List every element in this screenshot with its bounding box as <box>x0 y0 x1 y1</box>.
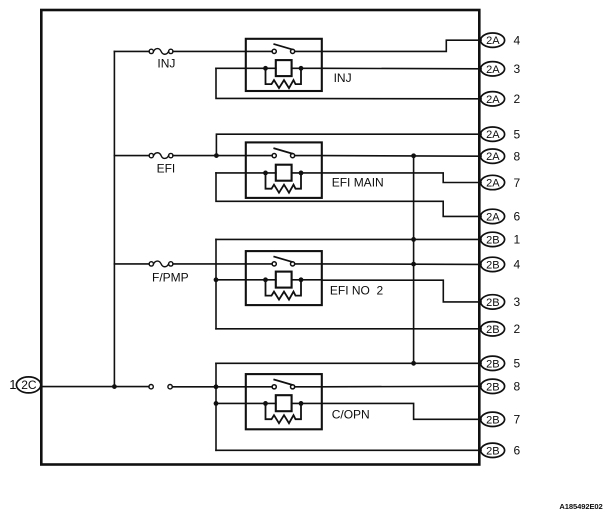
switch contact circles EFI MAIN <box>272 154 276 158</box>
svg-text:2B: 2B <box>486 358 499 370</box>
svg-text:EFI: EFI <box>157 161 176 175</box>
svg-text:C/OPN: C/OPN <box>332 407 370 421</box>
connector oval 2B pin 4 <box>481 257 521 272</box>
svg-text:2B: 2B <box>486 381 499 393</box>
switch arm INJ <box>274 44 292 49</box>
svg-text:INJ: INJ <box>157 57 175 71</box>
node bus bottom junction <box>112 384 117 389</box>
connector oval 2B pin 3 <box>481 295 521 310</box>
wire EFI fuse feed <box>114 155 149 157</box>
svg-text:4: 4 <box>514 258 521 272</box>
node coil feed C/OPN <box>214 401 219 406</box>
wire right vertical bus <box>413 156 415 363</box>
svg-text:2A: 2A <box>486 129 500 141</box>
coil wire INJ <box>216 67 322 69</box>
switch arm EFI MAIN <box>274 148 292 153</box>
svg-text:5: 5 <box>514 128 521 142</box>
switch contact wires C/OPN <box>246 386 322 388</box>
coil (relay winding) C/OPN <box>276 395 292 411</box>
svg-text:7: 7 <box>514 176 521 190</box>
coil (relay winding) EFI NO 2 <box>276 272 292 288</box>
coil wire EFI NO 2 <box>216 279 322 281</box>
fuse F/PMP <box>149 261 173 267</box>
svg-text:6: 6 <box>514 210 521 224</box>
switch contact wires EFI NO 2 <box>246 263 322 265</box>
svg-text:5: 5 <box>514 357 521 371</box>
connector oval 2A pin 7 <box>481 175 521 190</box>
svg-text:6: 6 <box>514 444 521 458</box>
connector oval 2A pin 8 <box>481 149 521 164</box>
coil (relay winding) INJ <box>276 60 292 76</box>
node coil feed EFI NO 2 <box>214 277 219 282</box>
wire EFI MAIN coil return to 2A-6 <box>216 173 481 217</box>
connector oval 2A pin 3 <box>481 62 521 76</box>
wire 2C feed <box>41 386 149 388</box>
connector oval 2A pin 4 <box>481 33 521 48</box>
switch contact circles C/OPN <box>272 385 276 389</box>
node switch feed C/OPN <box>214 384 219 389</box>
connector oval 2B pin 7 <box>481 412 521 427</box>
svg-text:EFI MAIN: EFI MAIN <box>332 176 384 190</box>
svg-text:8: 8 <box>514 380 521 394</box>
resistor EFI MAIN <box>266 173 302 193</box>
junction dots coil INJ <box>263 66 268 71</box>
svg-text:2B: 2B <box>486 414 499 426</box>
svg-text:2A: 2A <box>486 94 500 106</box>
wire EFI MAIN switch out to 2A-8 <box>322 155 481 158</box>
switch arm C/OPN <box>274 380 292 385</box>
svg-text:1: 1 <box>514 233 521 247</box>
svg-text:2A: 2A <box>486 151 500 163</box>
coil (relay winding) EFI MAIN <box>276 165 292 181</box>
node branch EFI <box>214 153 219 158</box>
relay U3 EFI NO 2 box <box>246 251 322 305</box>
node bus top <box>411 153 416 158</box>
resistor C/OPN <box>266 403 302 423</box>
wire F/PMP fuse to relay <box>173 263 246 265</box>
connector oval 2B pin 6 <box>481 443 521 458</box>
wire EFI fuse to relay <box>173 155 246 157</box>
svg-text:2A: 2A <box>486 35 500 47</box>
wire 2B-5 line <box>216 362 481 364</box>
junction dots coil EFI NO 2 <box>263 277 268 282</box>
coil wire EFI MAIN <box>216 172 322 174</box>
switch contact wires INJ <box>246 50 322 52</box>
wire 2B-2 line <box>216 328 481 330</box>
connector oval 2A pin 5 <box>481 127 521 142</box>
wire INJ switch out to 2A-4 <box>322 40 481 51</box>
svg-text:A185492E02: A185492E02 <box>559 502 602 511</box>
connector oval 2C <box>16 377 40 393</box>
wire 2B-1 line <box>216 238 481 240</box>
wire EFI NO 2 switch out to 2B-4 <box>322 263 481 266</box>
svg-text:2A: 2A <box>486 211 500 223</box>
connector oval 2B pin 2 <box>481 322 521 337</box>
svg-text:3: 3 <box>514 62 521 76</box>
connector oval 2B pin 5 <box>481 356 521 371</box>
wire INJ fuse to relay <box>173 50 246 52</box>
switch contact wires EFI MAIN <box>246 155 322 157</box>
border frame <box>41 10 479 465</box>
switch contact circles EFI NO 2 <box>272 262 276 266</box>
wire F/PMP fuse feed <box>114 263 149 265</box>
node bus on 2B-4 <box>411 262 416 267</box>
wire C/OPN coil out to 2B-7 <box>322 403 481 419</box>
svg-text:2C: 2C <box>21 378 37 392</box>
wire left bus vertical <box>113 51 115 386</box>
svg-text:2B: 2B <box>486 445 499 457</box>
connector oval 2A pin 2 <box>481 92 521 106</box>
svg-text:F/PMP: F/PMP <box>152 271 189 285</box>
svg-text:2A: 2A <box>486 64 500 76</box>
switch contact circles INJ <box>272 49 276 53</box>
junction dots coil C/OPN <box>263 401 268 406</box>
wire open contact to relay <box>172 386 246 388</box>
wire INJ coil return to 2A-2 <box>216 68 481 99</box>
relay U2 EFI MAIN box <box>246 142 322 198</box>
relay U4 C/OPN box <box>246 374 322 429</box>
svg-text:2B: 2B <box>486 324 499 336</box>
resistor EFI NO 2 <box>266 280 302 300</box>
connector oval 2B pin 8 <box>481 379 521 394</box>
svg-text:INJ: INJ <box>334 71 352 85</box>
svg-text:8: 8 <box>514 150 521 164</box>
svg-text:2A: 2A <box>486 178 500 190</box>
fuse EFI <box>149 153 173 159</box>
fuse INJ <box>149 49 173 55</box>
node bus on 2B-1 <box>411 237 416 242</box>
wire EFI MAIN coil out to 2A-7 <box>322 173 481 183</box>
wire 2B-6 line <box>216 449 481 451</box>
open contact circles C/OPN feed <box>149 385 153 389</box>
wire EFI NO 2 coil out to 2B-3 <box>322 280 481 302</box>
svg-text:2B: 2B <box>486 297 499 309</box>
junction dots coil EFI MAIN <box>263 171 268 176</box>
svg-text:2: 2 <box>514 92 521 106</box>
resistor INJ <box>266 68 302 88</box>
svg-text:2B: 2B <box>486 259 499 271</box>
node bus bottom on 2B-5 <box>411 361 416 366</box>
connector oval 2B pin 1 <box>481 232 521 247</box>
switch arm EFI NO 2 <box>274 257 292 262</box>
wire left branch vertical C/OPN <box>215 363 217 450</box>
connector oval 2A pin 6 <box>481 209 521 224</box>
relay U1 INJ box <box>246 39 322 91</box>
wire INJ fuse feed <box>114 50 149 52</box>
svg-text:2B: 2B <box>486 234 499 246</box>
wire branch up to 2A-5 <box>216 134 481 155</box>
svg-text:4: 4 <box>514 34 521 48</box>
svg-text:1: 1 <box>9 377 16 392</box>
svg-text:7: 7 <box>514 413 521 427</box>
svg-text:2: 2 <box>514 322 521 336</box>
svg-text:3: 3 <box>514 295 521 309</box>
wire INJ coil out to 2A-3 <box>322 67 481 70</box>
svg-text:EFI NO 2: EFI NO 2 <box>330 284 384 298</box>
wire C/OPN switch out to 2B-8 <box>322 385 481 388</box>
wire left branch vertical EFI NO 2 <box>215 239 217 328</box>
coil wire C/OPN <box>216 402 322 404</box>
